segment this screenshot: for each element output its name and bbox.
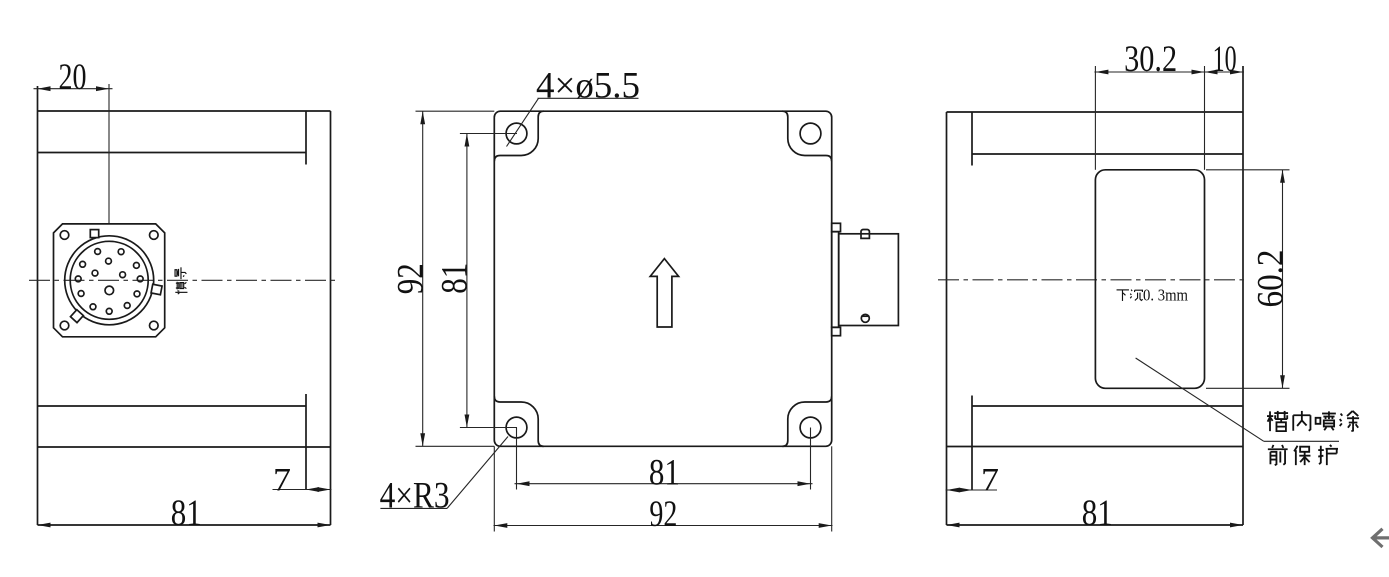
front view plate outline — [494, 111, 831, 446]
svg-text:30.2: 30.2 — [1124, 39, 1177, 80]
left view bottom right inner edge — [305, 394, 307, 490]
note 槽内喷涂 — [1267, 411, 1288, 431]
connector pins outer ring — [75, 276, 81, 282]
right view top left inner edge — [971, 112, 973, 166]
recessed groove — [1095, 170, 1204, 388]
svg-text:81: 81 — [1082, 493, 1113, 534]
connector flange — [54, 224, 165, 337]
dimension 7 right view — [946, 489, 998, 491]
right view centerline — [938, 279, 1248, 281]
left view side label 惯导 — [175, 267, 187, 294]
corner ear top-left — [494, 111, 544, 161]
right view bottom step edge — [972, 405, 1243, 407]
dimension 92 left extension lines — [416, 110, 495, 112]
svg-text:7: 7 — [273, 463, 291, 499]
side connector tab top — [832, 223, 841, 231]
connector key tab — [90, 230, 98, 238]
right view body outline — [947, 66, 1244, 525]
dimension 92 bottom extension lines — [493, 446, 495, 531]
side connector key — [861, 229, 869, 238]
label 下沉0.3mm — [1117, 290, 1129, 301]
dimension 30.2/10 extension lines — [1094, 66, 1096, 170]
svg-text:10: 10 — [1213, 39, 1237, 80]
leader 4xD5.5 — [507, 98, 539, 146]
dimension 10 arrows — [1205, 70, 1218, 75]
dimension 81 left view bottom — [38, 524, 331, 526]
side connector tab bottom — [832, 327, 841, 335]
left view top right inner edge — [305, 111, 307, 165]
svg-text:92: 92 — [390, 263, 431, 294]
svg-text:81: 81 — [171, 493, 202, 534]
gray back arrow — [1373, 529, 1389, 547]
dimension 81 bottom line — [515, 483, 813, 485]
corner ear bottom-right — [782, 396, 832, 446]
connector pins inner — [106, 258, 112, 264]
connector outer ring — [65, 236, 154, 325]
leader groove note — [1136, 358, 1264, 441]
bayonet lug lower left — [70, 310, 83, 323]
svg-text:81: 81 — [649, 453, 680, 494]
svg-text:92: 92 — [649, 494, 677, 535]
dimension 92 bottom line — [494, 525, 833, 527]
flange corner holes — [60, 231, 69, 240]
svg-text:60.2: 60.2 — [1250, 250, 1291, 308]
right view top step edge — [972, 153, 1243, 155]
connector center pin — [105, 286, 114, 295]
connector inner ring — [70, 241, 148, 319]
svg-text:0. 3mm: 0. 3mm — [1143, 286, 1188, 305]
svg-text:7: 7 — [981, 463, 999, 499]
side connector mounting strip — [832, 232, 839, 328]
bayonet lug right — [151, 284, 162, 294]
dimension 81 left line — [466, 134, 468, 428]
svg-text:20: 20 — [59, 57, 87, 98]
svg-text:4×R3: 4×R3 — [380, 476, 450, 517]
corner ear bottom-left — [494, 396, 544, 446]
side connector body — [839, 234, 899, 326]
mounting holes 4xD5.5 — [506, 123, 527, 144]
dimension 81 bottom extension lines — [516, 428, 518, 490]
left view centerline — [29, 279, 335, 281]
leader 4xR3 — [447, 437, 508, 509]
note 前保护 — [1268, 445, 1288, 465]
left view bottom step edge — [38, 405, 307, 407]
corner ear top-right — [782, 111, 832, 161]
left view lower full edge — [38, 446, 331, 448]
left view body outline — [38, 86, 331, 525]
side connector screw — [861, 314, 869, 322]
right view lower full edge — [947, 446, 1244, 448]
svg-text:81: 81 — [435, 263, 476, 294]
svg-text:4×ø5.5: 4×ø5.5 — [536, 65, 640, 106]
dimension 92 left line — [422, 111, 424, 446]
right view bottom left inner edge — [971, 396, 973, 491]
dimension 30.2 line — [1094, 71, 1244, 73]
dimension 60.2 extension lines — [1206, 169, 1290, 171]
dimension 7 left view — [273, 489, 332, 491]
dimension 20 extension — [108, 84, 110, 223]
direction arrow symbol — [650, 259, 678, 327]
dimension 81 right view bottom — [947, 524, 1244, 526]
dimension 20 line — [34, 88, 113, 90]
left view top step edge — [38, 152, 307, 154]
dimension 81 left extension lines — [460, 133, 517, 135]
dimension 60.2 line — [1282, 170, 1284, 388]
